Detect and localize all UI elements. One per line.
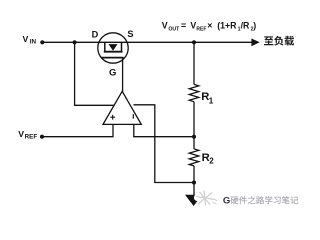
svg-text:V: V bbox=[162, 21, 168, 31]
svg-text:G: G bbox=[223, 195, 230, 206]
svg-text:REF: REF bbox=[25, 133, 38, 140]
svg-text:S: S bbox=[127, 29, 133, 39]
svg-text:V: V bbox=[18, 129, 24, 139]
svg-text:=: = bbox=[181, 21, 186, 31]
svg-text:1: 1 bbox=[209, 96, 214, 105]
svg-text:V: V bbox=[23, 34, 29, 44]
svg-text:REF: REF bbox=[196, 27, 206, 33]
svg-text:(1+R: (1+R bbox=[217, 21, 237, 31]
svg-text:G: G bbox=[109, 68, 116, 79]
svg-text:): ) bbox=[253, 21, 256, 31]
svg-text:×: × bbox=[207, 21, 212, 31]
svg-text:D: D bbox=[92, 29, 99, 39]
svg-text:2: 2 bbox=[209, 157, 214, 166]
svg-text:/R: /R bbox=[241, 21, 250, 31]
svg-text:IN: IN bbox=[30, 39, 37, 46]
svg-text:OUT: OUT bbox=[168, 27, 180, 33]
